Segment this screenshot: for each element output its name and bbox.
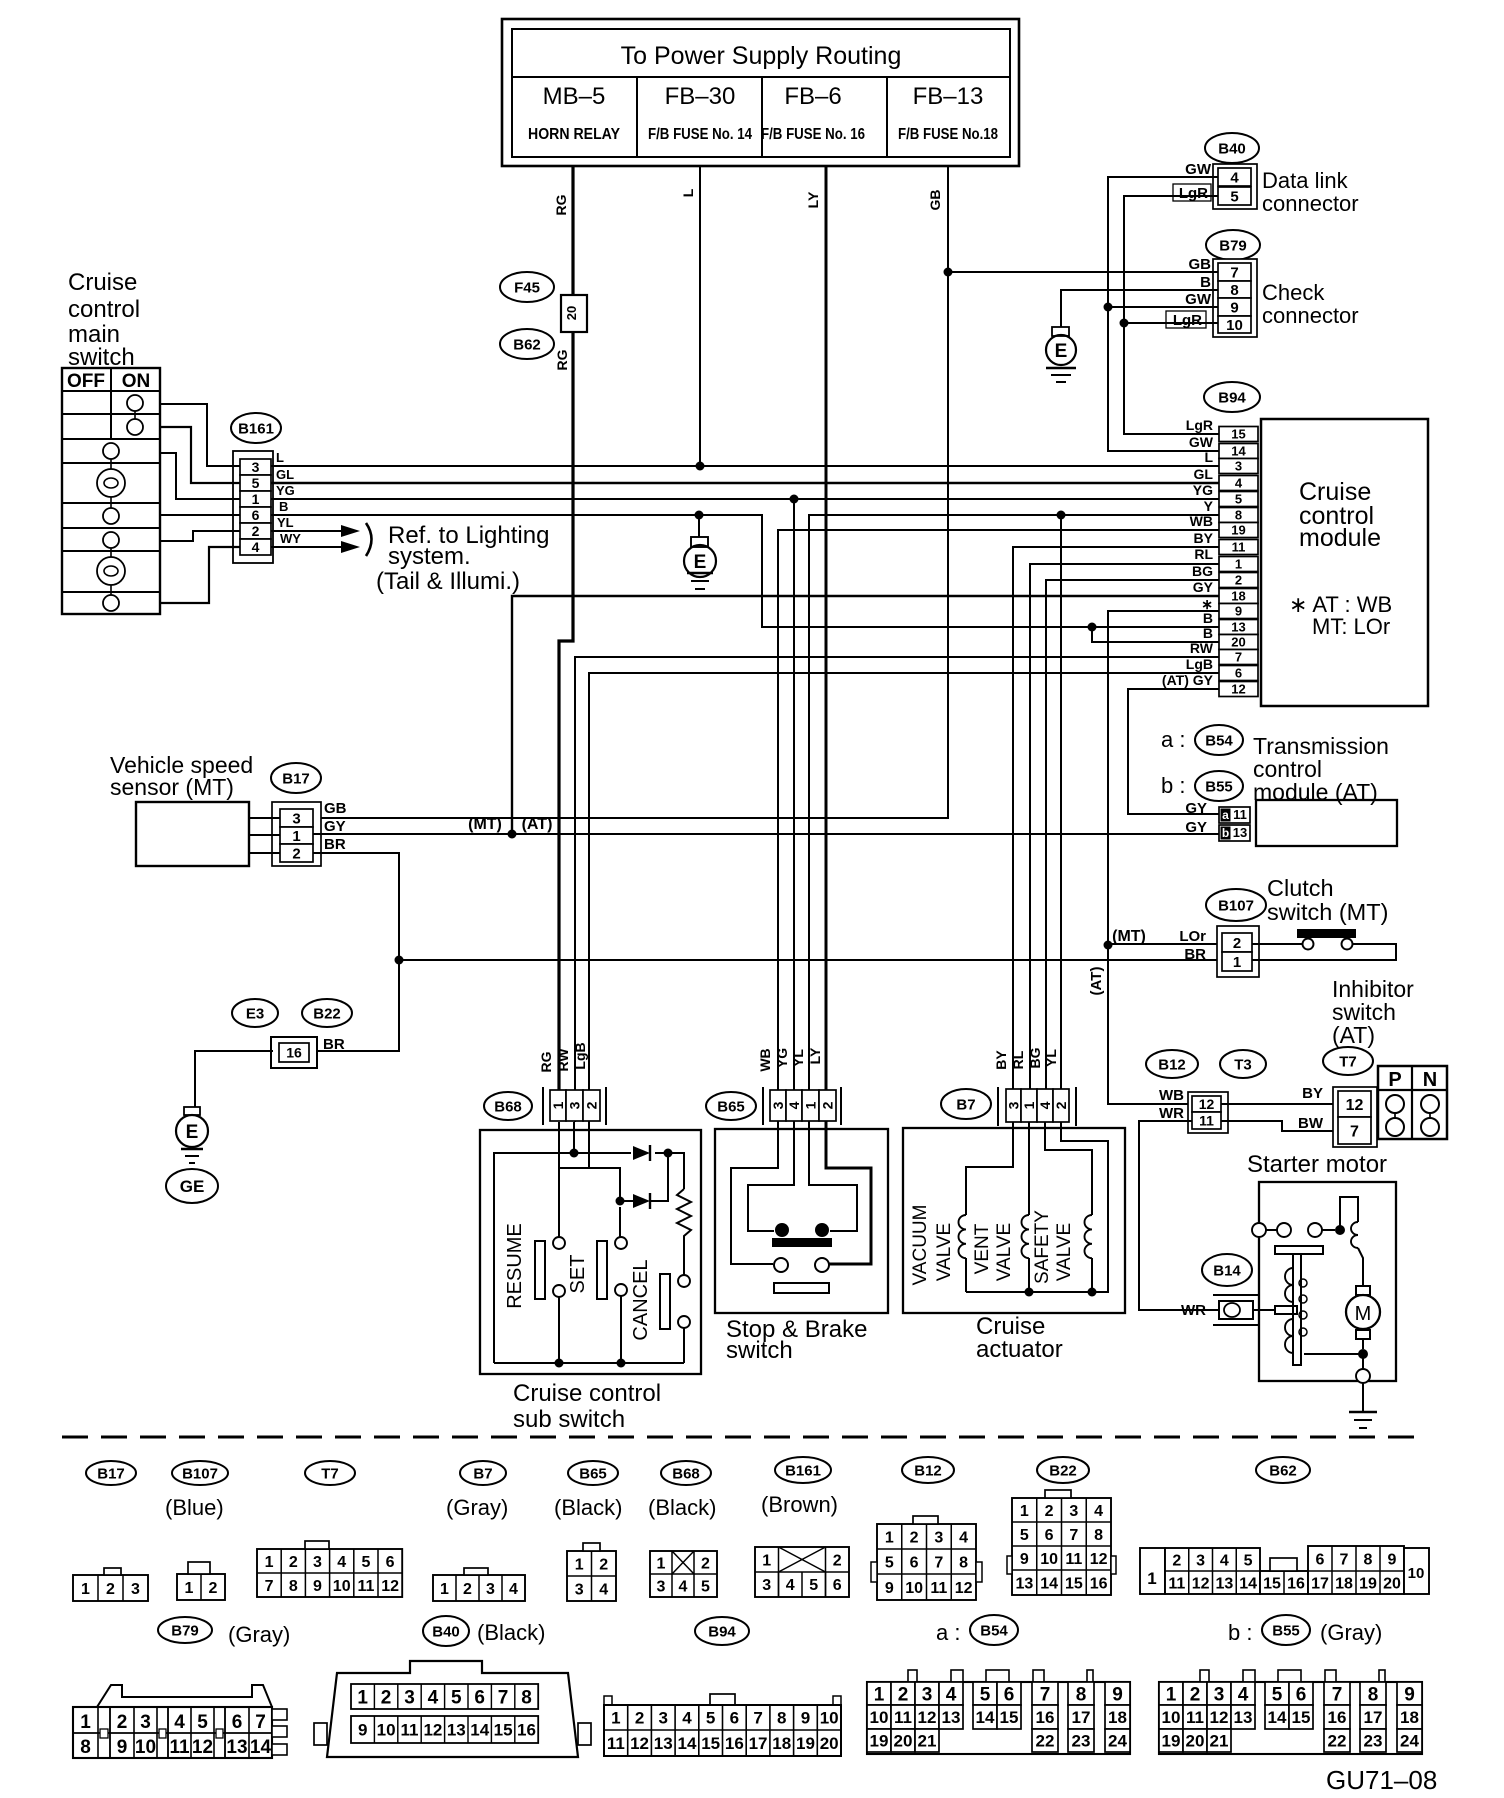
svg-text:13: 13 bbox=[654, 1734, 673, 1753]
stop and brake switch box bbox=[715, 1129, 888, 1313]
stop brake contact bar bbox=[772, 1238, 832, 1247]
module pin 15 bbox=[1219, 427, 1258, 442]
svg-text:1: 1 bbox=[575, 1556, 584, 1573]
svg-text:7: 7 bbox=[934, 1554, 943, 1571]
B79 pin 9 bbox=[1218, 298, 1251, 316]
svg-text:3: 3 bbox=[313, 1554, 322, 1571]
connector oval B68 bottom bbox=[661, 1461, 711, 1485]
wire WB inside stop brake switch bbox=[731, 1122, 778, 1264]
svg-text:15: 15 bbox=[701, 1734, 720, 1753]
svg-text:18: 18 bbox=[1335, 1575, 1353, 1592]
connector oval B12 bbox=[1146, 1050, 1198, 1078]
svg-text:4: 4 bbox=[1230, 169, 1239, 186]
svg-text:1: 1 bbox=[885, 1529, 894, 1546]
B68 connector bracket bbox=[542, 1087, 544, 1125]
connector oval B107 bottom bbox=[172, 1461, 228, 1485]
svg-text:14: 14 bbox=[250, 1737, 272, 1758]
svg-text:3: 3 bbox=[1069, 1503, 1078, 1520]
connector oval F45 bbox=[500, 272, 554, 302]
connector oval B65 bottom bbox=[568, 1461, 618, 1485]
connector B12 pin face bbox=[877, 1524, 976, 1600]
svg-text:actuator: actuator bbox=[976, 1336, 1063, 1363]
connector oval B62 bbox=[500, 329, 554, 359]
B12 pin 12 bbox=[1192, 1096, 1221, 1112]
B65 pin 4 bbox=[786, 1090, 802, 1121]
ground symbol starter bbox=[1349, 1411, 1377, 1413]
svg-text:N: N bbox=[1423, 1069, 1437, 1091]
B22 pin 16 box bbox=[271, 1037, 317, 1068]
junction YL to cruise actuator pin 2 bbox=[1057, 511, 1066, 520]
svg-text:5: 5 bbox=[451, 1687, 462, 1708]
B7 pin 3 bbox=[1006, 1089, 1021, 1122]
svg-text:13: 13 bbox=[1233, 825, 1247, 840]
svg-text:LY: LY bbox=[807, 1047, 823, 1064]
svg-text:GY: GY bbox=[1185, 800, 1207, 817]
svg-text:5: 5 bbox=[1230, 188, 1238, 205]
svg-text:12: 12 bbox=[1210, 1708, 1229, 1727]
svg-text:Y: Y bbox=[1204, 498, 1214, 514]
solenoid winding rings bbox=[1299, 1279, 1307, 1287]
svg-text:13: 13 bbox=[1015, 1575, 1033, 1592]
svg-text:4: 4 bbox=[1094, 1503, 1103, 1520]
B161 pin 5 bbox=[240, 475, 271, 491]
svg-text:B65: B65 bbox=[717, 1098, 745, 1115]
wire starter to ground bbox=[1362, 1383, 1364, 1411]
svg-text:2: 2 bbox=[106, 1581, 115, 1598]
svg-text:B7: B7 bbox=[473, 1465, 492, 1482]
svg-text:3: 3 bbox=[486, 1581, 495, 1598]
svg-text:FB–30: FB–30 bbox=[665, 83, 736, 110]
svg-text:1: 1 bbox=[265, 1554, 274, 1571]
svg-text:3: 3 bbox=[566, 1101, 582, 1109]
svg-text:B55: B55 bbox=[1272, 1622, 1300, 1639]
svg-text:14: 14 bbox=[1268, 1708, 1287, 1727]
svg-text:19: 19 bbox=[870, 1732, 889, 1751]
svg-text:(Black): (Black) bbox=[648, 1495, 716, 1520]
B40 pin 4 bbox=[1218, 168, 1251, 186]
svg-text:B54: B54 bbox=[1205, 732, 1233, 749]
wire WB module pin 19 to stop brake switch pin 3 bbox=[778, 530, 1219, 1122]
svg-text:11: 11 bbox=[1186, 1708, 1204, 1727]
svg-text:19: 19 bbox=[1162, 1732, 1181, 1751]
junction YG to stop brake switch bbox=[790, 495, 799, 504]
svg-text:3: 3 bbox=[252, 459, 260, 475]
svg-text:B40: B40 bbox=[1218, 140, 1246, 157]
svg-text:11: 11 bbox=[607, 1734, 625, 1753]
svg-text:6: 6 bbox=[1045, 1527, 1054, 1544]
svg-text:13: 13 bbox=[1215, 1575, 1233, 1592]
contact stop brake fixed 2 bbox=[815, 1223, 829, 1237]
contact resume lower bbox=[553, 1285, 565, 1297]
starter motor M symbol bbox=[1356, 1286, 1370, 1295]
svg-text:4: 4 bbox=[599, 1581, 608, 1598]
wire BR to clutch switch B107 pin 1 bbox=[399, 959, 1222, 961]
svg-text:13: 13 bbox=[942, 1708, 961, 1727]
wire D2 cathode up to loop bbox=[650, 1153, 668, 1201]
wire set branch bbox=[619, 1207, 621, 1237]
svg-text:B22: B22 bbox=[313, 1005, 341, 1022]
svg-text:3: 3 bbox=[140, 1712, 151, 1733]
transmission module pin b13 bbox=[1219, 825, 1250, 841]
module pin 12 bbox=[1219, 682, 1258, 697]
svg-text:FB–13: FB–13 bbox=[913, 83, 984, 110]
svg-text:L: L bbox=[680, 188, 696, 197]
connector oval B79 bbox=[1206, 230, 1260, 260]
svg-text:B94: B94 bbox=[708, 1623, 736, 1640]
B79 pin 10 bbox=[1218, 316, 1251, 333]
ground E symbol on B net bbox=[698, 515, 700, 537]
svg-text:YL: YL bbox=[790, 1049, 806, 1067]
svg-text:10: 10 bbox=[1226, 317, 1243, 334]
B17 pin 2 bbox=[280, 844, 313, 862]
wire B link to module pin 20 bbox=[1092, 627, 1219, 642]
wire GY module pin 18 down to MT/AT junction bbox=[512, 596, 1219, 834]
svg-text:23: 23 bbox=[1072, 1732, 1091, 1751]
svg-text:8: 8 bbox=[1364, 1551, 1373, 1568]
svg-text:CANCEL: CANCEL bbox=[630, 1259, 652, 1340]
svg-text:F/B FUSE No. 14: F/B FUSE No. 14 bbox=[648, 126, 752, 143]
svg-text:BR: BR bbox=[324, 836, 346, 853]
transmission module pin a11 bbox=[1219, 807, 1250, 823]
svg-text:4: 4 bbox=[946, 1684, 957, 1705]
B161 pin 4 bbox=[240, 539, 271, 555]
svg-text:GL: GL bbox=[276, 467, 294, 482]
svg-text:11: 11 bbox=[169, 1737, 190, 1758]
svg-text:4: 4 bbox=[786, 1577, 795, 1594]
svg-text:control: control bbox=[68, 296, 140, 323]
module pin 2 bbox=[1219, 573, 1258, 588]
svg-text:4: 4 bbox=[252, 539, 260, 555]
starter relay contact 3 bbox=[1308, 1223, 1322, 1237]
svg-text:Clutch: Clutch bbox=[1267, 875, 1334, 901]
svg-text:3: 3 bbox=[575, 1581, 584, 1598]
top power supply routing box bbox=[502, 19, 1019, 166]
svg-text:OFF: OFF bbox=[67, 371, 105, 392]
svg-text:20: 20 bbox=[894, 1732, 913, 1751]
inhibitor contact P1 bbox=[1386, 1095, 1404, 1113]
svg-text:connector: connector bbox=[1262, 191, 1359, 216]
connector B107 pin face bbox=[177, 1574, 225, 1600]
svg-text:E3: E3 bbox=[246, 1005, 264, 1022]
connector B7 pin face bbox=[433, 1575, 525, 1601]
svg-text:7: 7 bbox=[1340, 1551, 1349, 1568]
switch contact row4 double bbox=[97, 469, 125, 497]
starter solenoid coil lower bbox=[1285, 1319, 1293, 1353]
safety valve coil bbox=[1085, 1215, 1093, 1258]
svg-text:LgR: LgR bbox=[1186, 417, 1213, 433]
svg-text:LY: LY bbox=[805, 191, 821, 208]
svg-text:RESUME: RESUME bbox=[504, 1223, 526, 1309]
svg-text:8: 8 bbox=[1076, 1684, 1087, 1705]
svg-text:1: 1 bbox=[440, 1581, 449, 1598]
svg-text:1: 1 bbox=[80, 1712, 91, 1733]
B40 pin 5 bbox=[1218, 187, 1251, 205]
svg-text:MB–5: MB–5 bbox=[543, 83, 606, 110]
junction starter motor return bbox=[1358, 1349, 1368, 1359]
starter solenoid plunger T bar bbox=[1275, 1246, 1323, 1254]
svg-text:8: 8 bbox=[1230, 282, 1238, 299]
svg-text:To Power Supply Routing: To Power Supply Routing bbox=[621, 42, 902, 70]
wire GY sensor pin1 to transmission module b13 bbox=[313, 833, 1219, 835]
svg-text:MT: LOr: MT: LOr bbox=[1312, 614, 1390, 639]
junction B net at module pins 13/20 bbox=[1088, 623, 1097, 632]
connector oval B55 bottom bbox=[1262, 1615, 1310, 1645]
switch contact row2 ON bbox=[127, 419, 143, 435]
wire YG B161 pin1 to module pin 5 bbox=[271, 498, 1219, 500]
svg-text:1: 1 bbox=[874, 1684, 885, 1705]
wire sub switch loop bottom bbox=[494, 1362, 684, 1364]
svg-text:sensor (MT): sensor (MT) bbox=[110, 774, 234, 800]
T7 pin 12 bbox=[1338, 1091, 1371, 1117]
svg-text:YG: YG bbox=[1193, 482, 1213, 498]
B65 pin 2 bbox=[819, 1090, 836, 1121]
wire YL module pin 8 to stop brake switch pin 1 bbox=[809, 515, 1219, 1122]
svg-text:18: 18 bbox=[772, 1734, 791, 1753]
B79 pin 8 bbox=[1218, 281, 1251, 298]
module pin 9 bbox=[1219, 604, 1258, 619]
svg-text:9: 9 bbox=[885, 1580, 894, 1597]
svg-text:7: 7 bbox=[1040, 1684, 1051, 1705]
connector oval B161 bbox=[231, 413, 281, 443]
svg-text:1: 1 bbox=[550, 1101, 566, 1109]
svg-text:10: 10 bbox=[135, 1737, 156, 1758]
wire star module pin 9 to clutch and inhibitor circuits bbox=[1108, 611, 1219, 1104]
svg-text:B107: B107 bbox=[182, 1465, 218, 1482]
svg-text:2: 2 bbox=[1045, 1503, 1054, 1520]
inhibitor contact P2 bbox=[1386, 1118, 1404, 1136]
wire BY module pin 11 to cruise actuator pin 3 bbox=[1013, 547, 1219, 1122]
svg-text:11: 11 bbox=[1233, 807, 1247, 822]
svg-text:B: B bbox=[1203, 610, 1213, 626]
contact cancel upper bbox=[678, 1275, 690, 1287]
junction safety valve common bbox=[1088, 1288, 1097, 1297]
svg-text:B79: B79 bbox=[171, 1622, 199, 1639]
svg-text:9: 9 bbox=[1230, 299, 1238, 316]
svg-text:(AT) GY: (AT) GY bbox=[1162, 672, 1214, 688]
svg-text:11: 11 bbox=[1065, 1551, 1082, 1568]
svg-text:9: 9 bbox=[1112, 1684, 1123, 1705]
svg-text:Cruise control: Cruise control bbox=[513, 1380, 661, 1407]
connector oval B94 bottom bbox=[695, 1617, 749, 1645]
svg-text:2: 2 bbox=[833, 1552, 842, 1569]
svg-text:6: 6 bbox=[730, 1709, 739, 1728]
module pin 5 bbox=[1219, 492, 1258, 507]
junction GB wire to check connector bbox=[944, 268, 953, 277]
wire BW B12-11 to T7-7 bbox=[1221, 1121, 1338, 1131]
wire cancel to loop bottom bbox=[683, 1328, 685, 1363]
svg-text:8: 8 bbox=[1368, 1684, 1379, 1705]
svg-text:GB: GB bbox=[927, 190, 943, 211]
wire B161 pin3 to module pin 3 bbox=[271, 465, 1219, 467]
label LgR on B79 pin10 wire bbox=[1166, 311, 1206, 328]
switch contact row7 double bbox=[97, 557, 125, 585]
connector T7 body bbox=[1333, 1087, 1377, 1147]
svg-text:RG: RG bbox=[554, 349, 570, 370]
wire GW to B79 pin 9 bbox=[1108, 306, 1218, 308]
svg-text:HORN RELAY: HORN RELAY bbox=[528, 126, 621, 143]
diode D2 in sub switch bbox=[633, 1194, 650, 1208]
svg-text:19: 19 bbox=[1231, 523, 1245, 538]
svg-text:8: 8 bbox=[80, 1737, 91, 1758]
transmission control module box bbox=[1256, 800, 1397, 846]
svg-text:19: 19 bbox=[796, 1734, 815, 1753]
svg-text:11: 11 bbox=[1199, 1113, 1214, 1129]
junction set at loop bottom bbox=[617, 1359, 626, 1368]
svg-text:BY: BY bbox=[1302, 1085, 1323, 1102]
svg-text:B40: B40 bbox=[432, 1623, 460, 1640]
svg-text:GY: GY bbox=[1185, 819, 1207, 836]
svg-text:B: B bbox=[1200, 274, 1211, 291]
starter field coil bbox=[1351, 1222, 1358, 1248]
svg-text:4: 4 bbox=[1235, 476, 1243, 491]
connector oval B161 bottom bbox=[775, 1457, 831, 1483]
svg-text:3: 3 bbox=[404, 1687, 415, 1708]
svg-text:B14: B14 bbox=[1213, 1262, 1241, 1279]
brace to lighting system bbox=[366, 523, 372, 556]
svg-text:B161: B161 bbox=[238, 420, 274, 437]
B107 pin 1 bbox=[1222, 952, 1252, 971]
junction L wire bbox=[696, 462, 705, 471]
wire L from FB-30 down to node on B161 pin3 wire bbox=[699, 166, 701, 466]
svg-text:24: 24 bbox=[1108, 1732, 1127, 1751]
connector B40 body bbox=[1213, 164, 1257, 209]
B161 pin 1 bbox=[240, 491, 271, 507]
svg-text:11: 11 bbox=[357, 1578, 374, 1595]
svg-text:24: 24 bbox=[1400, 1732, 1419, 1751]
svg-text:1: 1 bbox=[1166, 1684, 1177, 1705]
module pin 3 bbox=[1219, 459, 1258, 474]
wire YG branch to stop brake switch pin 4 bbox=[793, 499, 795, 1122]
contact resume upper bbox=[553, 1237, 565, 1249]
svg-text:5: 5 bbox=[1272, 1684, 1283, 1705]
wire set lower to bottom bbox=[620, 1296, 622, 1363]
svg-text:WR: WR bbox=[1181, 1302, 1206, 1319]
svg-text:1: 1 bbox=[81, 1581, 90, 1598]
svg-text:BY: BY bbox=[993, 1050, 1009, 1070]
connector oval T3 bbox=[1220, 1050, 1266, 1078]
vacuum valve coil bbox=[959, 1215, 967, 1258]
svg-text:5: 5 bbox=[197, 1712, 208, 1733]
svg-text:3: 3 bbox=[659, 1709, 668, 1728]
starter solenoid plunger stem bbox=[1293, 1254, 1301, 1365]
B65 pin 1 bbox=[802, 1090, 819, 1121]
svg-text:17: 17 bbox=[1311, 1575, 1329, 1592]
B7 pin 2 bbox=[1053, 1089, 1069, 1122]
ground E body connector near check connector bbox=[1052, 327, 1069, 336]
svg-text:3: 3 bbox=[292, 810, 300, 827]
wire YG inside stop brake switch bbox=[748, 1122, 794, 1231]
svg-text:4: 4 bbox=[1238, 1684, 1249, 1705]
svg-text:B62: B62 bbox=[513, 336, 541, 353]
svg-text:6: 6 bbox=[833, 1577, 842, 1594]
svg-text:17: 17 bbox=[1364, 1708, 1383, 1727]
junction diode branch at loop bbox=[664, 1149, 673, 1158]
B7 pin 1 bbox=[1021, 1089, 1037, 1122]
svg-text:7: 7 bbox=[753, 1709, 762, 1728]
wire resume lower to bottom bbox=[558, 1297, 560, 1363]
connector B17 pin face bbox=[73, 1575, 148, 1601]
svg-text:connector: connector bbox=[1262, 303, 1359, 328]
svg-text:BG: BG bbox=[1192, 563, 1213, 579]
connector oval B79 bottom bbox=[158, 1617, 212, 1643]
svg-text:Starter motor: Starter motor bbox=[1247, 1151, 1387, 1178]
svg-text:11: 11 bbox=[401, 1721, 419, 1740]
svg-text:12: 12 bbox=[381, 1578, 399, 1595]
svg-text:10: 10 bbox=[377, 1721, 396, 1740]
svg-text:6: 6 bbox=[386, 1554, 395, 1571]
connector B107 body bbox=[1217, 926, 1259, 977]
svg-text:GY: GY bbox=[1193, 579, 1214, 595]
svg-text:1: 1 bbox=[657, 1555, 666, 1572]
svg-text:9: 9 bbox=[1020, 1551, 1029, 1568]
svg-text:7: 7 bbox=[1069, 1527, 1078, 1544]
svg-text:9: 9 bbox=[1388, 1551, 1397, 1568]
svg-text:2: 2 bbox=[898, 1684, 909, 1705]
svg-text:module: module bbox=[1299, 524, 1381, 552]
connector oval B62 bottom bbox=[1256, 1457, 1310, 1483]
wire sensor to pin 3 bbox=[249, 817, 280, 819]
svg-text:15: 15 bbox=[1263, 1575, 1281, 1592]
svg-text:FB–6: FB–6 bbox=[784, 83, 841, 110]
svg-text:B7: B7 bbox=[956, 1096, 975, 1113]
switch contact row6 bbox=[103, 532, 119, 548]
wire B161 pin2 to lighting system arrow bbox=[271, 530, 341, 532]
svg-text:20: 20 bbox=[1231, 635, 1245, 650]
svg-text:2: 2 bbox=[117, 1712, 128, 1733]
contact stop brake moving 2 bbox=[815, 1258, 829, 1272]
stop brake button bar bbox=[774, 1283, 829, 1293]
connector B40 pin face bbox=[327, 1661, 578, 1757]
cruise control main switch body bbox=[62, 368, 160, 614]
svg-text:B54: B54 bbox=[980, 1622, 1008, 1639]
svg-text:20: 20 bbox=[564, 306, 579, 320]
B161 pin 2 bbox=[240, 523, 271, 539]
wire resistor to cancel contact bbox=[683, 1242, 685, 1275]
wire RL module pin 1 to cruise actuator pin 1 bbox=[1030, 564, 1219, 1122]
svg-text:6: 6 bbox=[252, 507, 260, 523]
svg-text:2: 2 bbox=[252, 523, 260, 539]
svg-text:GE: GE bbox=[180, 1177, 205, 1196]
connector oval T7 bottom bbox=[305, 1461, 355, 1485]
svg-text:GU71–08: GU71–08 bbox=[1326, 1765, 1437, 1795]
svg-text:Check: Check bbox=[1262, 280, 1325, 305]
wire starter field feed bbox=[1340, 1197, 1358, 1230]
svg-text:2: 2 bbox=[292, 845, 300, 862]
junction LgR at check connector bbox=[1120, 319, 1129, 328]
svg-text:3: 3 bbox=[657, 1578, 666, 1595]
svg-text:(MT): (MT) bbox=[468, 816, 502, 833]
svg-text:16: 16 bbox=[1036, 1708, 1055, 1727]
svg-text:WB: WB bbox=[757, 1048, 773, 1071]
connector B161 pin face bbox=[755, 1547, 849, 1597]
svg-text:10: 10 bbox=[820, 1709, 839, 1728]
connector oval B12 bottom bbox=[902, 1457, 954, 1483]
wire AT GY module pin 12 to transmission module a11 bbox=[1128, 689, 1219, 814]
svg-text:5: 5 bbox=[1244, 1552, 1253, 1569]
set button bar bbox=[597, 1241, 607, 1299]
svg-text:10: 10 bbox=[1408, 1565, 1425, 1582]
svg-text:a: a bbox=[1222, 808, 1229, 822]
svg-text:12: 12 bbox=[1199, 1096, 1215, 1112]
contact set upper bbox=[615, 1237, 627, 1249]
svg-text:B79: B79 bbox=[1219, 237, 1247, 254]
vent valve coil bbox=[1022, 1215, 1029, 1258]
svg-text:E: E bbox=[186, 1122, 199, 1143]
svg-text:1: 1 bbox=[1021, 1101, 1037, 1109]
svg-text:3: 3 bbox=[1196, 1552, 1205, 1569]
svg-text:LgR: LgR bbox=[1173, 312, 1202, 329]
svg-text:12: 12 bbox=[1192, 1575, 1210, 1592]
